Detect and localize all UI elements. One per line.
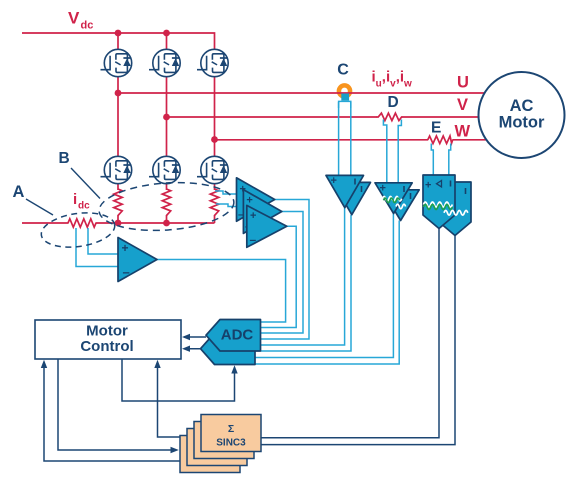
wire: phase W line — [215, 139, 429, 141]
squiggle: D front green — [384, 198, 400, 203]
op-amp B3 — [247, 205, 287, 247]
sigma-delta modulator D front — [375, 183, 412, 214]
transistor Q1 (high side U) — [101, 49, 132, 76]
sigma-delta modulator D back — [382, 190, 419, 221]
svg-text:+: + — [250, 210, 256, 222]
squiggle: D front white — [383, 196, 402, 201]
svg-text:–: – — [250, 233, 257, 247]
svg-text:V: V — [68, 9, 80, 28]
squiggle: D back white — [396, 204, 406, 209]
wire: SINC3 to Motor Control feedback left — [44, 363, 180, 461]
wire: C sensor secondary right — [350, 102, 352, 175]
transistor Q2 (high side V) — [149, 49, 180, 76]
leader line B — [71, 168, 100, 199]
block: SINC3 filter stack box 1 — [201, 415, 261, 452]
wire: SINC3 data to Motor Control — [158, 363, 195, 437]
svg-text:+: + — [380, 183, 386, 195]
block: SINC3 filter stack box 2 — [194, 422, 254, 459]
wire: D shunt sense left — [383, 120, 386, 183]
squiggle: E front green — [424, 205, 453, 210]
wire: phase leg column 3 — [214, 49, 216, 190]
node: junction dot return bus col2 — [163, 220, 170, 227]
sigma-delta modulator C front — [326, 175, 364, 207]
node: junction dot V — [163, 114, 170, 121]
resistor E: shunt in phase W (white backing) — [428, 136, 453, 144]
transistor Q5 (low side V) — [149, 156, 180, 183]
squiggle: E front white — [424, 202, 453, 207]
wire: phase V line — [167, 116, 378, 118]
transistor Q6 (low side W) — [197, 156, 228, 183]
block: Motor Control — [35, 320, 181, 359]
svg-text:B: B — [59, 150, 70, 167]
wire: E modulator back output to SINC3 (navy) — [261, 236, 455, 445]
wire: Motor Control to ADC control — [122, 359, 235, 401]
transistor Q3 (high side W) — [197, 49, 228, 76]
svg-text:+: + — [425, 180, 431, 192]
svg-text:W: W — [455, 123, 471, 141]
wire: B amp1 output to ADC — [261, 200, 309, 340]
wire: B amp2 output to ADC — [261, 212, 303, 334]
wire: E shunt sense right — [449, 144, 451, 176]
ellipse B (dashed, leg shunt measurement) — [98, 178, 236, 234]
wire: sensor C secondary top bar — [339, 101, 351, 108]
wire: DC return bus — [22, 222, 69, 224]
svg-text:A: A — [13, 183, 25, 201]
svg-text:i: i — [73, 191, 77, 208]
wire: C amp front output to ADC — [261, 208, 345, 345]
block: ADC back pentagon — [201, 333, 256, 365]
svg-text:+: + — [331, 175, 337, 187]
svg-text:Σ: Σ — [228, 423, 234, 435]
transistor Q4 (low side U) — [101, 156, 132, 183]
svg-text:SINC3: SINC3 — [216, 438, 246, 449]
svg-text:dc: dc — [81, 20, 94, 32]
svg-text:AC: AC — [510, 97, 534, 115]
svg-text:Motor: Motor — [86, 323, 128, 340]
svg-text:+: + — [122, 241, 129, 255]
wire: A amp output to ADC — [157, 260, 286, 323]
node: junction dot U — [115, 90, 122, 97]
svg-text:–: – — [123, 265, 130, 280]
wire: E modulator front output to SINC3 (navy) — [261, 229, 439, 438]
svg-text:Motor: Motor — [499, 114, 545, 132]
sigma-delta modulator C back — [333, 182, 371, 214]
resistor: leg shunt 3 — [210, 189, 218, 216]
wire: C amp back output to ADC — [261, 215, 351, 351]
block: SINC3 filter stack box 4 — [180, 436, 240, 473]
resistor: leg shunt 2 — [162, 189, 170, 216]
wire: phase leg column 1 — [117, 33, 119, 190]
resistor: idc shunt in return bus (white backing) — [68, 219, 96, 227]
node: junction dot W — [211, 136, 218, 143]
wire: phase leg column 2 — [166, 33, 168, 190]
sigma-delta modulator E front — [423, 175, 455, 229]
svg-text:ADC: ADC — [221, 327, 254, 344]
svg-text:U: U — [457, 74, 469, 92]
wire: B amp3 output to ADC — [261, 226, 296, 327]
wire: E shunt sense left — [431, 144, 433, 176]
wire: ADC to Motor Control data arrow 2 — [184, 348, 201, 350]
block: SINC3 filter stack box 3 — [187, 429, 247, 466]
wire: C sensor secondary left — [338, 102, 340, 175]
wire: D amp back output to ADC — [255, 221, 399, 365]
leader line A — [26, 199, 53, 215]
wire: Motor Control clock to SINC3 — [58, 359, 176, 450]
node: junction dot return bus col1 — [115, 220, 122, 227]
wire: idc shunt sense tap right — [88, 228, 118, 254]
wire: leg shunt3 sense upper to B amps — [215, 191, 237, 194]
squiggle: E back white — [444, 211, 468, 216]
op-amp B1 — [237, 178, 275, 221]
resistor D: shunt in phase V (white backing) — [377, 113, 404, 121]
motor: AC Motor — [479, 72, 565, 158]
svg-text:D: D — [388, 94, 399, 111]
node: junction dot top rail col2 — [163, 30, 170, 37]
wire: Vdc positive rail — [22, 33, 215, 49]
wire: leg shunt3 sense lower to B amps — [216, 204, 247, 207]
wire: idc shunt sense tap left — [76, 228, 118, 267]
sensor C: current transducer ring — [339, 85, 350, 96]
svg-text:E: E — [431, 120, 441, 137]
wire: ADC to Motor Control data arrow 1 — [184, 336, 206, 338]
ellipse A (dashed, idc measurement) — [39, 209, 117, 252]
block: ADC front pentagon — [206, 320, 261, 352]
svg-text:iu,iv,iw: iu,iv,iw — [372, 69, 413, 90]
wire: column stubs below shunts — [118, 215, 215, 223]
wire: D amp front output to ADC — [255, 214, 393, 358]
resistor: leg shunt 1 — [114, 189, 122, 216]
wire: phase U line — [118, 92, 485, 94]
op-amp A (idc amplifier) — [118, 238, 157, 282]
svg-text:Control: Control — [80, 338, 133, 355]
svg-text:C: C — [337, 62, 349, 79]
op-amp B2 — [243, 190, 281, 234]
svg-text:V: V — [457, 96, 468, 114]
svg-text:dc: dc — [78, 201, 90, 212]
sigma-delta modulator E back — [439, 182, 471, 236]
wire: D shunt sense right — [398, 120, 401, 183]
sensor C: secondary core block — [341, 94, 349, 101]
svg-text:+: + — [246, 195, 252, 207]
node: junction dot top rail col1 — [115, 30, 122, 37]
